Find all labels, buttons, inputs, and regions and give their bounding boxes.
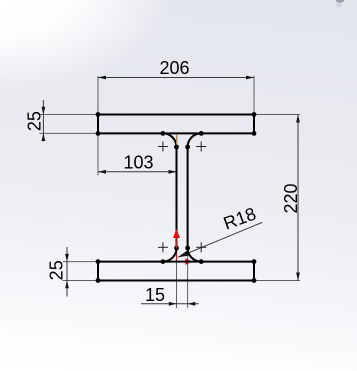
svg-text:15: 15 (145, 285, 165, 305)
svg-text:R18: R18 (221, 204, 259, 234)
svg-text:220: 220 (281, 183, 301, 213)
svg-text:103: 103 (123, 153, 153, 173)
svg-text:206: 206 (159, 58, 189, 78)
svg-text:25: 25 (24, 111, 44, 131)
svg-text:25: 25 (47, 260, 67, 280)
